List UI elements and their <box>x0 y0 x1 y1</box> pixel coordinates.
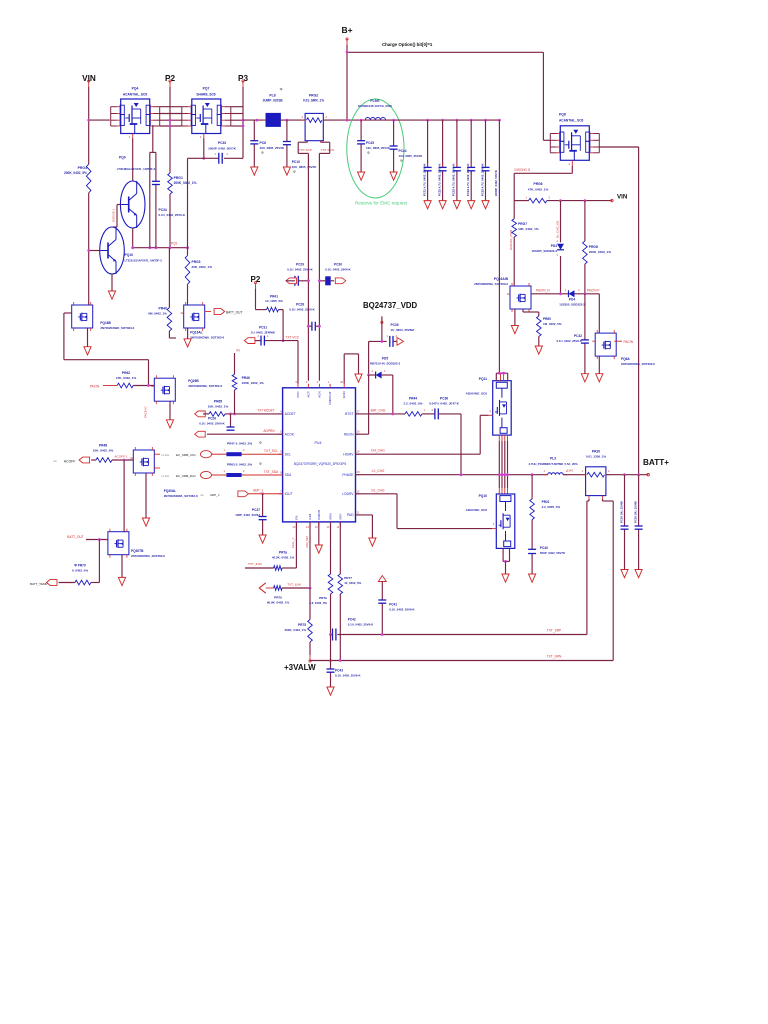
transistor PQ7 (SHARE_SC6) <box>182 99 231 139</box>
capacitor PC29 <box>295 276 298 286</box>
junction B+ corner <box>346 51 349 54</box>
label PL8 <box>262 88 283 103</box>
svg-text:PQ26B: PQ26B <box>188 379 199 383</box>
svg-text:PR65: PR65 <box>214 400 222 404</box>
svg-text:0.1U_0402_25V6-K: 0.1U_0402_25V6-K <box>556 339 582 343</box>
svg-text:BATT_TEMP: BATT_TEMP <box>30 582 47 586</box>
wire PC45 drop <box>360 120 362 172</box>
svg-text:Φ: Φ <box>367 151 370 155</box>
svg-text:PR48: PR48 <box>99 444 107 448</box>
wire PQ10 emitter <box>111 274 113 291</box>
wire REGN <box>356 375 369 434</box>
svg-text:PR47 0_0402_5%: PR47 0_0402_5% <box>227 442 252 446</box>
svg-text:2N7002KDWA_SOT363-6: 2N7002KDWA_SOT363-6 <box>164 494 198 498</box>
label PR41 <box>265 295 283 304</box>
port PR76 <box>259 583 273 593</box>
wire PQ11 drain ladder <box>496 373 507 381</box>
svg-text:IOUT: IOUT <box>285 492 293 496</box>
svg-text:PRG7: PRG7 <box>518 222 527 226</box>
wire PACIN row <box>531 294 599 333</box>
label PR76 <box>267 595 290 604</box>
svg-text:BAT_CHG: BAT_CHG <box>371 409 386 413</box>
svg-text:PQ30TB: PQ30TB <box>131 549 144 553</box>
svg-text:PC26: PC26 <box>208 417 216 421</box>
junction PC28 b <box>318 325 321 328</box>
svg-text:10U_0805_25V#K: 10U_0805_25V#K <box>292 165 318 169</box>
svg-text:21: 21 <box>357 510 360 514</box>
svg-text:PR62: PR62 <box>122 371 130 375</box>
op-amp U1 : charger IC PU4 BQ24737 <box>279 380 360 529</box>
svg-text:PL3: PL3 <box>550 457 556 461</box>
svg-text:0.1U_0402_25V6-K: 0.1U_0402_25V6-K <box>389 608 415 612</box>
svg-text:PC35: PC35 <box>391 323 399 327</box>
wire EN pin drop <box>295 522 297 568</box>
svg-text:SRN: SRN <box>329 513 333 520</box>
svg-text:ACANTlAL_SC6: ACANTlAL_SC6 <box>559 119 583 123</box>
svg-text:PL9/E: PL9/E <box>370 99 380 103</box>
wire PR40 drop <box>168 248 170 308</box>
capacitor PC42 <box>333 629 336 641</box>
wire drop to PQ8 <box>543 52 550 140</box>
svg-text:SDA: SDA <box>285 473 293 477</box>
ground PC40 <box>529 574 536 582</box>
svg-text:2N7002KDWA_SOT363-6: 2N7002KDWA_SOT363-6 <box>131 554 165 558</box>
wire PC32 branch <box>584 294 586 374</box>
svg-text:PHASE: PHASE <box>342 473 354 477</box>
label PQ6A <box>621 357 655 366</box>
junction PC23 top <box>456 119 459 122</box>
junction PC25 top <box>484 119 487 122</box>
label PR62 <box>116 371 137 380</box>
wire gate drop b <box>155 152 157 247</box>
resistor PR65 <box>203 412 225 417</box>
svg-text:TXT ACP: TXT ACP <box>299 148 312 152</box>
label PC33 <box>208 141 237 151</box>
svg-text:TXT_SRN: TXT_SRN <box>547 655 562 659</box>
wire right rail vertical <box>638 147 640 475</box>
net label TXT SCL <box>264 449 278 453</box>
svg-text:PC42: PC42 <box>348 618 356 622</box>
wire PQ16B gate route <box>64 313 149 386</box>
label PR40 <box>148 307 167 316</box>
svg-text:40.2K_0402_1%: 40.2K_0402_1% <box>272 556 295 560</box>
svg-text:CHG: CHG <box>567 469 574 473</box>
wire VDD node <box>369 341 387 375</box>
resistor PRG2 sense block <box>301 113 327 142</box>
resistor PR72 <box>274 566 283 571</box>
svg-text:PD4: PD4 <box>569 298 575 302</box>
wire PRG2 to B+ node <box>323 119 365 121</box>
svg-text:Φ: Φ <box>261 151 264 155</box>
label PQ16B <box>100 321 134 330</box>
label PC41 <box>389 603 415 612</box>
capacitor PC31 <box>258 334 270 346</box>
svg-text:PR46: PR46 <box>242 376 250 380</box>
svg-text:PACIN_N: PACIN_N <box>536 289 550 293</box>
svg-text:12: 12 <box>315 525 318 529</box>
label PC45 <box>366 141 391 155</box>
label PC43 <box>335 669 361 678</box>
net label ACP <box>299 148 312 152</box>
wire PHASE out <box>356 474 548 476</box>
wire PC41 stem <box>381 582 383 635</box>
svg-text:PQ8: PQ8 <box>559 113 566 117</box>
oval port EC_SMB_DA1 <box>161 471 212 478</box>
power pin P3 <box>242 80 244 87</box>
wire PQ9 base link <box>113 205 120 228</box>
label PQ10 switch <box>466 494 488 512</box>
svg-text:CMPOUT: CMPOUT <box>328 391 332 405</box>
svg-text:DH_CHG: DH_CHG <box>371 449 385 453</box>
wire PQ8 to right rail <box>599 146 638 148</box>
wire PL8 to PRG2 <box>280 119 305 121</box>
svg-text:TXT VCC: TXT VCC <box>286 336 300 340</box>
label PR75 <box>284 623 306 632</box>
svg-text:VIN: VIN <box>617 194 628 201</box>
svg-text:RB751V-40_SOD323-3: RB751V-40_SOD323-3 <box>370 362 401 366</box>
wire PC8 drop <box>253 120 255 167</box>
svg-text:PC8: PC8 <box>260 141 267 145</box>
svg-text:SHARE_SC6: SHARE_SC6 <box>196 93 215 97</box>
svg-text:PR77: PR77 <box>344 576 352 580</box>
label PD3 <box>531 244 557 253</box>
svg-text:PRG8: PRG8 <box>589 245 598 249</box>
ground PC25 <box>482 201 489 209</box>
svg-text:ILIM_SET: ILIM_SET <box>305 535 309 548</box>
transistor PQ30TB <box>105 529 129 558</box>
svg-text:2.2_0805_5%: 2.2_0805_5% <box>542 505 561 509</box>
svg-text:JUMP_0201B: JUMP_0201B <box>262 99 283 103</box>
svg-text:PR41: PR41 <box>270 295 278 299</box>
svg-text:VCC: VCC <box>296 391 300 398</box>
junction PQ11 drain <box>498 372 505 375</box>
junction PC21 top <box>426 119 429 122</box>
wire PR70 branch <box>91 540 100 583</box>
svg-text:2N7002KDWA_SOT363-6: 2N7002KDWA_SOT363-6 <box>474 282 508 286</box>
junction PC29 <box>307 279 310 282</box>
port ACOK <box>195 431 206 437</box>
svg-text:PACIN G: PACIN G <box>144 406 148 418</box>
svg-text:ILIM: ILIM <box>308 513 312 519</box>
wire ACN vertical <box>319 142 329 381</box>
wire PC21 drop <box>427 120 429 201</box>
svg-text:ADAUWG_SC6: ADAUWG_SC6 <box>466 392 488 396</box>
svg-text:1000P_0402_50V7K: 1000P_0402_50V7K <box>208 147 237 151</box>
svg-text:PC33: PC33 <box>218 141 226 145</box>
svg-text:2200P_0402_50V7K: 2200P_0402_50V7K <box>494 170 498 196</box>
port PC30 <box>335 278 346 284</box>
power net VIN label <box>82 74 96 83</box>
wire PACIN red stub <box>614 340 622 342</box>
junction PC41 <box>381 633 384 636</box>
net label DISCHG_PWR <box>509 229 513 250</box>
wire PRG7 to PQ16AB <box>513 237 515 286</box>
capacitor PC25 <box>482 167 490 170</box>
net label ADPRN <box>263 429 275 433</box>
svg-text:PRG6: PRG6 <box>534 182 543 186</box>
svg-text:BATT_OUT: BATT_OUT <box>226 311 242 315</box>
power net P3 label <box>238 74 248 83</box>
label PC22 <box>437 164 441 197</box>
junction bus2 c <box>155 246 158 249</box>
svg-text:Φ PR70: Φ PR70 <box>74 564 86 568</box>
transistor PQ11 <box>489 381 512 435</box>
net label TXT SDA <box>264 470 279 474</box>
net label CHG <box>567 469 574 473</box>
wire PL3 to PR20 <box>563 474 585 476</box>
net label BATT_OUT red <box>67 535 83 539</box>
svg-text:10K_0402_1%: 10K_0402_1% <box>518 227 539 231</box>
label PD4 <box>559 298 585 307</box>
net label PACIN G <box>144 406 148 418</box>
wire PQ9 emitter <box>132 228 134 248</box>
ground PC22 <box>439 201 446 209</box>
label PR44 <box>403 397 422 406</box>
svg-text:10K_0402_5%: 10K_0402_5% <box>93 449 114 453</box>
capacitor PC24 <box>467 167 475 170</box>
resistor PR21 <box>530 499 535 520</box>
capacitor PC38 <box>621 526 629 529</box>
transistor PQ26B <box>151 375 175 404</box>
wire SRP long line <box>331 499 590 635</box>
wire PRG3 drop <box>187 158 189 305</box>
svg-text:1SS355_SOD323-3: 1SS355_SOD323-3 <box>531 249 557 253</box>
power net BATT+ label <box>643 458 669 467</box>
svg-text:LX_CHG: LX_CHG <box>372 469 385 473</box>
svg-text:90.9K_0402_1%: 90.9K_0402_1% <box>267 600 290 604</box>
transistor PQ16AL <box>181 302 205 331</box>
wire P3 vertical <box>242 87 244 158</box>
ground PC38 <box>621 570 628 578</box>
wire PR62 to PQ26B <box>133 385 154 387</box>
svg-text:0.01_SRR_1%: 0.01_SRR_1% <box>303 99 324 103</box>
label PC44 <box>399 149 424 163</box>
resistor PRG4 <box>86 164 91 193</box>
svg-text:PR44: PR44 <box>409 397 417 401</box>
net label TXT ILIM1 <box>248 562 262 566</box>
wire PC23 drop <box>456 120 458 201</box>
junction ILIM <box>309 587 312 590</box>
svg-text:PC10: PC10 <box>292 160 300 164</box>
wire B+ top run <box>348 51 544 53</box>
net label BAT_CHG <box>371 409 386 413</box>
svg-text:SRP: SRP <box>338 514 342 520</box>
net label DISCHG1 <box>112 208 116 222</box>
junction PRG8 top <box>584 199 587 202</box>
capacitor PC44 <box>390 146 398 149</box>
svg-text:LODRV: LODRV <box>342 492 354 496</box>
capacitor PC36 <box>435 408 438 419</box>
wire PC43 branch <box>330 635 332 688</box>
transistor PQ10 <box>100 227 125 274</box>
transistor PQ30AL <box>130 447 154 476</box>
svg-text:PQ10: PQ10 <box>479 494 488 498</box>
label PQ4 <box>123 87 147 97</box>
svg-text:PQ4: PQ4 <box>132 87 139 91</box>
svg-text:0.1U_0402_25V6-K: 0.1U_0402_25V6-K <box>348 623 374 627</box>
svg-text:11: 11 <box>337 525 340 529</box>
svg-text:ACOK: ACOK <box>285 432 295 436</box>
net label TXT ACDET <box>257 409 275 413</box>
label PQ30TB <box>131 549 165 558</box>
svg-text:+4.32a: +4.32a <box>161 474 170 478</box>
svg-text:CELL_1: CELL_1 <box>291 537 295 548</box>
wire PC26 stem <box>230 414 232 427</box>
wire PR40 tail <box>169 331 176 338</box>
svg-text:2N7002KDWA_SOT363-6: 2N7002KDWA_SOT363-6 <box>621 362 655 366</box>
net label DL_CHG <box>372 488 385 492</box>
capacitor PC26 <box>227 427 235 430</box>
svg-text:BQ24737_VDD: BQ24737_VDD <box>363 301 418 310</box>
wire PQ11 to phase <box>499 435 507 475</box>
ground PC24 <box>468 201 475 209</box>
label PQ30AL <box>164 489 198 498</box>
label PRG6 <box>528 182 549 192</box>
svg-text:PACIN: PACIN <box>90 385 100 389</box>
svg-text:Φ: Φ <box>259 441 262 445</box>
wire PR75 branch <box>309 588 311 655</box>
power net VIN right label <box>617 194 628 201</box>
port ACOFF <box>53 457 89 463</box>
power pin VIN right <box>611 199 613 201</box>
svg-text:PC39 10U_25V6K: PC39 10U_25V6K <box>633 501 637 523</box>
svg-text:13: 13 <box>327 525 330 529</box>
svg-text:10_0402_5%: 10_0402_5% <box>344 581 361 585</box>
ground PQ16AL <box>184 339 191 347</box>
transistor PQ16B <box>69 302 93 331</box>
wire PR20 to BATT+ <box>606 474 648 476</box>
wire CMPIN gnd <box>318 522 320 545</box>
wire SRN long line <box>310 499 613 661</box>
svg-text:ACOFF 1: ACOFF 1 <box>114 455 127 459</box>
power pin BATT+ <box>647 474 649 476</box>
svg-text:0.1U_0402_25V6-K: 0.1U_0402_25V6-K <box>325 268 351 272</box>
port BATT_TEMP <box>30 580 75 586</box>
wire PQ16AB gnd stub <box>514 309 516 326</box>
svg-text:200K_0402_5%: 200K_0402_5% <box>64 171 87 175</box>
svg-text:Φ: Φ <box>259 462 262 466</box>
resistor PR20 sense block <box>582 467 611 499</box>
power net P2 label <box>165 74 175 83</box>
capacitor PC28 <box>312 322 315 331</box>
resistor PR75 <box>308 620 313 643</box>
power pin P2 <box>169 80 171 87</box>
wire VIN vertical lower <box>88 193 90 305</box>
capacitor PC41 <box>378 600 386 603</box>
power pin VIN <box>88 80 90 87</box>
svg-text:EC_SMB_DA1: EC_SMB_DA1 <box>176 474 196 478</box>
ground PC10 <box>283 167 290 175</box>
capacitor PC39 <box>635 526 643 529</box>
resistor PR76 <box>274 586 283 591</box>
label PC30 <box>325 263 351 272</box>
capacitor PC30 <box>325 276 331 285</box>
resistor PRG7 <box>512 219 517 237</box>
junction PR46 bottom <box>233 413 236 416</box>
svg-text:100P_0402_50V6J: 100P_0402_50V6J <box>235 513 260 517</box>
junction P2 rows <box>169 119 172 128</box>
junction right rail batt <box>637 473 640 476</box>
resistor PR41 <box>267 307 279 312</box>
label PC31 <box>251 326 276 335</box>
net label PACIN <box>624 340 634 344</box>
svg-text:PR40: PR40 <box>159 307 167 311</box>
wire BTST <box>356 413 406 415</box>
junction PC44 top <box>392 119 395 122</box>
wire SRP pin drop <box>339 522 341 661</box>
label PR7b <box>309 596 327 605</box>
wire PR21 branch <box>531 475 533 574</box>
wire DISCHG down <box>513 201 515 219</box>
svg-text:15: 15 <box>357 489 360 493</box>
label PC39 <box>633 501 637 523</box>
capacitor PC23 <box>453 167 461 170</box>
wire GND pin route <box>344 354 358 384</box>
ground CMPIN <box>315 545 322 553</box>
svg-text:PC38 10U_25V6K: PC38 10U_25V6K <box>619 501 623 523</box>
svg-text:ADP_1: ADP_1 <box>253 488 263 492</box>
ground PC8 <box>251 167 258 175</box>
svg-text:SCL: SCL <box>285 452 292 456</box>
wire P2b route <box>256 289 267 310</box>
svg-text:47K_0402_1%: 47K_0402_1% <box>528 188 549 192</box>
wire phase to PQ10 <box>499 475 507 494</box>
svg-text:10U_0805_25V#K: 10U_0805_25V#K <box>260 146 286 150</box>
svg-text:PQ1: PQ1 <box>171 242 178 246</box>
svg-text:GND: GND <box>342 391 346 399</box>
label PC42 <box>348 618 374 627</box>
svg-text:PC36: PC36 <box>440 397 448 401</box>
wire gate drop a <box>149 152 151 247</box>
label PRG7 <box>518 222 539 231</box>
svg-text:0.1U_0402_25V6-K: 0.1U_0402_25V6-K <box>287 268 313 272</box>
svg-text:EC_SMB_CK1: EC_SMB_CK1 <box>176 453 196 457</box>
svg-text:ACN: ACN <box>317 391 321 398</box>
wire PC44 drop <box>393 120 395 172</box>
wire PRG1 to bus2 <box>169 194 171 248</box>
junction P3 bus <box>242 119 245 128</box>
svg-text:PC45: PC45 <box>366 141 374 145</box>
svg-text:200K_0402_1%: 200K_0402_1% <box>284 628 306 632</box>
ground PR60 <box>535 346 542 354</box>
wire PR72 link <box>282 567 296 569</box>
wire ACP vertical <box>298 142 308 381</box>
svg-text:PC43: PC43 <box>335 669 343 673</box>
wire PQ30AL to SMB <box>154 454 160 468</box>
EMC reserve text <box>355 201 408 206</box>
capacitor PC43 <box>327 669 335 672</box>
wire main bus left stub <box>89 119 110 121</box>
label PC40 <box>540 546 566 555</box>
wire PRG8 branch <box>584 201 586 294</box>
wire PC28 links <box>308 325 319 327</box>
svg-text:REGN: REGN <box>344 432 354 436</box>
svg-text:B+: B+ <box>341 25 352 35</box>
svg-text:PR20: PR20 <box>592 450 600 454</box>
junction SRN b <box>339 659 342 662</box>
port PC35 <box>393 338 404 346</box>
svg-text:Φ: Φ <box>293 170 296 174</box>
wire ILIM pin drop <box>309 522 311 588</box>
svg-text:0.1U_0402_25V6-K: 0.1U_0402_25V6-K <box>199 422 225 426</box>
resistor PR60 <box>537 316 542 337</box>
resistor PRG3 <box>185 256 190 285</box>
junction PRG8 PACIN <box>584 292 587 295</box>
svg-text:PR76: PR76 <box>274 595 282 599</box>
capacitor PC45 <box>357 141 365 144</box>
svg-text:0.1U_0402_25V6-K: 0.1U_0402_25V6-K <box>335 674 361 678</box>
wire B+ vertical to main bus <box>346 45 348 120</box>
